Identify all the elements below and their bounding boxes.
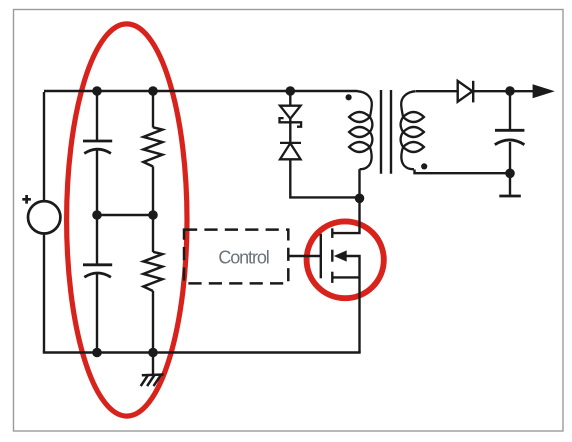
wire source lead — [332, 276, 359, 278]
resistor R1 — [143, 127, 162, 166]
control block — [184, 230, 288, 284]
diode D2 — [280, 143, 301, 159]
output diode D3 — [458, 81, 474, 103]
wire bottom rail — [43, 351, 361, 353]
wire snubber between diodes — [289, 119, 291, 144]
primary phase dot — [346, 94, 352, 100]
wire R2 to bottom rail — [152, 291, 154, 353]
wire R1 top lead — [152, 91, 154, 128]
wire C2 top lead — [96, 215, 98, 265]
annotation red ellipse — [67, 24, 187, 416]
node middle rail left — [92, 210, 102, 220]
node top rail snubber — [286, 86, 296, 96]
output return bar — [499, 195, 521, 198]
MOSFET body arrow — [334, 250, 347, 261]
wire output cap top lead — [509, 91, 511, 130]
wire snubber bottom to junction — [290, 159, 359, 197]
wire output cap bottom lead — [509, 142, 511, 195]
wire drain lead — [332, 197, 359, 233]
wire ground stub — [152, 353, 154, 375]
wire C1 branch top lead — [96, 91, 98, 141]
voltage source V1 — [22, 195, 60, 234]
wire source bottom lead — [43, 233, 45, 352]
transformer T1 secondary winding — [401, 91, 424, 169]
wire secondary bottom lead — [415, 170, 511, 174]
zener diode D1 — [280, 106, 302, 127]
node bottom rail ground — [148, 348, 158, 358]
node output bottom — [505, 169, 515, 179]
output arrow — [533, 84, 555, 98]
wire secondary top rail to diode — [473, 90, 533, 92]
svg-text:Control: Control — [218, 247, 268, 267]
output capacitor C3 — [495, 130, 525, 144]
node middle rail right — [148, 210, 158, 220]
secondary phase dot — [421, 163, 427, 169]
node bottom rail left — [92, 348, 102, 358]
wire R2 top lead — [152, 215, 154, 252]
MOSFET Q1 — [321, 228, 333, 283]
capacitor C1 — [83, 141, 112, 153]
node primary bottom junction — [355, 194, 365, 204]
wire middle rail — [97, 214, 153, 216]
resistor R2 — [143, 252, 162, 291]
wire R1 to middle rail — [152, 166, 154, 215]
wire source top lead — [43, 92, 45, 201]
wire body lead — [345, 256, 360, 353]
ground — [141, 375, 164, 387]
node output top — [505, 86, 515, 96]
node top rail C1 — [92, 86, 102, 96]
wire snubber top lead — [289, 91, 291, 106]
wire C2 to bottom rail — [96, 274, 98, 352]
wire gate lead — [288, 255, 321, 257]
wire C1 to middle rail — [96, 151, 98, 216]
transformer T1 primary winding — [349, 91, 372, 169]
node top rail R1 — [148, 86, 158, 96]
wire top rail — [44, 90, 358, 92]
capacitor C2 — [83, 265, 112, 277]
wire secondary top lead — [416, 90, 458, 92]
wire primary bottom lead — [358, 169, 360, 198]
transformer core — [381, 90, 391, 174]
annotation red circle — [307, 221, 384, 298]
